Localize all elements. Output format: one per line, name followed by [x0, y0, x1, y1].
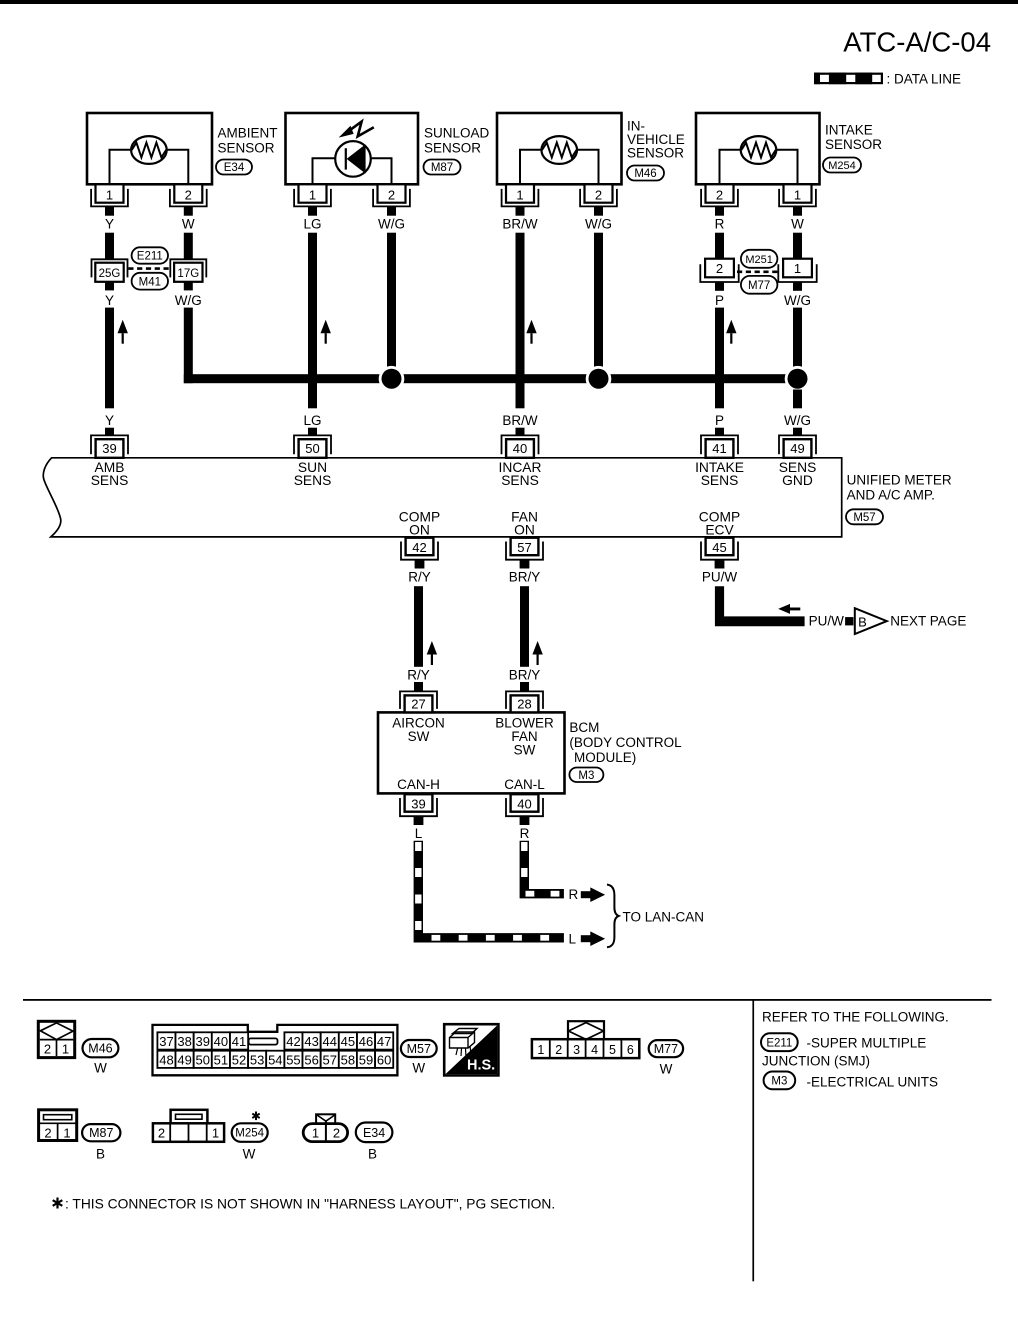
sunload sensor pin 1: [294, 184, 331, 215]
svg-text:: DATA LINE: : DATA LINE: [887, 72, 962, 87]
svg-text:M3: M3: [771, 1076, 787, 1088]
connector ref M46: [627, 166, 664, 181]
ambient sensor pin 2: [170, 184, 207, 215]
data square before B flag: [845, 617, 853, 625]
svg-text:R: R: [715, 217, 725, 232]
connector ref M46 view: [83, 1039, 119, 1075]
svg-text:W/G: W/G: [784, 413, 811, 428]
meter pin 57: [506, 538, 543, 569]
svg-text:CAN-L: CAN-L: [504, 777, 545, 792]
svg-text:49: 49: [790, 441, 804, 456]
svg-text:M46: M46: [634, 168, 656, 180]
direction arrow on BR/W wire: [526, 320, 536, 344]
svg-text:W: W: [660, 1062, 673, 1077]
svg-text:52: 52: [232, 1053, 246, 1068]
svg-text:41: 41: [232, 1034, 246, 1049]
junction dashed line M251/M77: [737, 270, 779, 273]
svg-text:ECV: ECV: [705, 522, 734, 537]
meter pin 50: [294, 435, 331, 457]
svg-text:L: L: [569, 931, 577, 946]
svg-text:M57: M57: [853, 512, 875, 524]
vertical divider line: [752, 1000, 754, 1281]
svg-text:1: 1: [312, 1125, 319, 1140]
svg-text:1: 1: [309, 188, 316, 203]
svg-text:44: 44: [323, 1034, 337, 1049]
ambient sensor E34 body: [87, 113, 212, 184]
svg-text:2: 2: [333, 1125, 340, 1140]
svg-text:55: 55: [286, 1053, 300, 1068]
svg-text:W: W: [412, 1060, 425, 1075]
junction dot sunload W/G: [382, 369, 402, 389]
svg-text:R: R: [520, 826, 530, 841]
svg-text:ATC-A/C-04: ATC-A/C-04: [843, 27, 991, 58]
svg-text:-SUPER MULTIPLE: -SUPER MULTIPLE: [807, 1035, 927, 1050]
meter pin 39: [91, 435, 128, 457]
svg-text:M57: M57: [407, 1042, 431, 1056]
connector ref M87: [424, 160, 461, 175]
svg-text:53: 53: [250, 1053, 264, 1068]
connector ref M87 view: [82, 1124, 120, 1161]
left arrow on PU/W wire: [778, 604, 800, 614]
svg-text:M41: M41: [139, 276, 161, 288]
sunload sensor photodiode symbol: [313, 141, 392, 185]
svg-text:: THIS CONNECTOR IS NOT SHOWN: : THIS CONNECTOR IS NOT SHOWN IN "HARNES…: [65, 1196, 555, 1211]
svg-text:SENSOR: SENSOR: [627, 146, 684, 161]
svg-text:2: 2: [44, 1041, 51, 1056]
terminal 17G (E211/M41 SMJ): [170, 259, 206, 290]
svg-text:2: 2: [716, 188, 723, 203]
svg-text:MODULE): MODULE): [574, 750, 636, 765]
svg-text:E211: E211: [137, 251, 163, 263]
svg-text:41: 41: [712, 441, 726, 456]
intake sensor thermistor symbol: [720, 136, 798, 185]
H.S. view direction mark: [444, 1024, 498, 1075]
svg-text:2: 2: [555, 1043, 562, 1057]
svg-text:1: 1: [106, 188, 113, 203]
BCM pin 39: [400, 794, 437, 825]
svg-text:40: 40: [517, 797, 531, 812]
svg-text:SW: SW: [408, 729, 430, 744]
svg-text:47: 47: [377, 1034, 391, 1049]
connector ref M41: [132, 273, 168, 290]
svg-text:45: 45: [712, 540, 726, 555]
connector ref E34 view: [356, 1123, 393, 1162]
svg-text:39: 39: [411, 797, 425, 812]
svg-text:BCM: BCM: [569, 720, 599, 735]
svg-text:JUNCTION (SMJ): JUNCTION (SMJ): [762, 1053, 870, 1068]
svg-text:37: 37: [159, 1034, 173, 1049]
CAN-H data line wire L to LAN-CAN: [414, 841, 564, 943]
svg-text:SENS: SENS: [701, 473, 739, 488]
svg-text:60: 60: [377, 1053, 391, 1068]
terminal 25G (E211/M41 SMJ): [92, 259, 128, 290]
terminal 1 (M251/M77 junction): [778, 259, 816, 291]
svg-text:BR/W: BR/W: [502, 413, 538, 428]
svg-text:W: W: [94, 1060, 107, 1075]
ambient sensor thermistor symbol: [110, 136, 189, 185]
terminal 2 (M251/M77 junction): [700, 259, 738, 291]
wire stub into meter pin: [105, 428, 114, 436]
svg-text:57: 57: [322, 1053, 336, 1068]
svg-text:51: 51: [214, 1053, 228, 1068]
svg-text:W/G: W/G: [585, 217, 612, 232]
svg-text:43: 43: [304, 1034, 318, 1049]
svg-text:42: 42: [286, 1034, 300, 1049]
svg-text:W: W: [243, 1146, 256, 1161]
svg-text:45: 45: [341, 1034, 355, 1049]
ref M3 electrical units: [764, 1072, 938, 1090]
svg-text:2: 2: [388, 188, 395, 203]
svg-text:6: 6: [627, 1043, 634, 1057]
BCM input names: [392, 715, 554, 792]
svg-text:W/G: W/G: [175, 293, 202, 308]
svg-text:R: R: [569, 887, 579, 902]
svg-text:SENS: SENS: [91, 473, 129, 488]
meter pin 42: [401, 538, 438, 569]
meter output names: [399, 509, 740, 537]
svg-text:5: 5: [609, 1043, 616, 1057]
next page flag B: [855, 608, 887, 634]
connector view M46: [38, 1021, 74, 1057]
curly brace: [607, 885, 619, 948]
svg-text:50: 50: [196, 1053, 210, 1068]
svg-text:E34: E34: [363, 1126, 385, 1140]
connector view M77: [532, 1021, 639, 1058]
svg-text:M254: M254: [235, 1128, 264, 1140]
svg-text:LG: LG: [303, 217, 321, 232]
BCM body M3: [378, 712, 565, 793]
svg-text:AMBIENT: AMBIENT: [218, 126, 278, 141]
svg-text:48: 48: [159, 1053, 173, 1068]
wire Y 25G down to meter pin 39: [105, 308, 114, 409]
label UNIFIED METER AND A/C AMP.: [847, 473, 952, 503]
direction arrow on P wire: [726, 320, 736, 344]
svg-text:M87: M87: [89, 1126, 113, 1140]
svg-text:R/Y: R/Y: [407, 668, 430, 683]
wire P SMJ terminal down to meter pin 41: [715, 308, 724, 409]
svg-text:CAN-H: CAN-H: [397, 777, 440, 792]
svg-text:BR/Y: BR/Y: [509, 570, 541, 585]
svg-text:1: 1: [794, 261, 801, 276]
connector ref M3: [569, 768, 603, 783]
svg-text:-ELECTRICAL UNITS: -ELECTRICAL UNITS: [807, 1074, 939, 1089]
wire BR/Y meter pin57 to BCM pin28: [520, 586, 529, 667]
label INTAKE SENSOR: [825, 123, 882, 153]
connector ref M254 view: [232, 1123, 268, 1161]
svg-text:ON: ON: [409, 522, 430, 537]
svg-text:2: 2: [158, 1125, 165, 1140]
svg-text:B: B: [858, 614, 867, 629]
svg-text:W: W: [791, 217, 804, 232]
svg-text:39: 39: [196, 1034, 210, 1049]
svg-text:Y: Y: [105, 217, 114, 232]
svg-text:57: 57: [517, 540, 531, 555]
connector view M254: [153, 1110, 224, 1142]
sunload sensor M87 body: [286, 113, 419, 184]
svg-text:M77: M77: [654, 1042, 678, 1056]
wire W/G intake terminal down to bus junction: [793, 308, 802, 367]
junction dot intake W/G: [788, 369, 808, 389]
svg-text:4: 4: [591, 1043, 598, 1057]
unified meter and A/C amp M57 body: [43, 458, 841, 537]
sunload sensor light arrows: [339, 122, 374, 138]
arrow R to LAN-CAN: [581, 887, 605, 902]
wire stub into meter pin: [516, 428, 525, 436]
svg-text:1: 1: [62, 1041, 69, 1056]
svg-text:40: 40: [513, 441, 527, 456]
svg-text:B: B: [96, 1146, 105, 1161]
direction arrow on R/Y wire: [427, 641, 437, 665]
junction halo gaps: [379, 366, 811, 392]
connector ref M57 view: [401, 1040, 437, 1075]
svg-text:BR/W: BR/W: [502, 217, 538, 232]
wire PU/W meter pin45 elbow to next page: [715, 586, 805, 626]
CAN-L data line wire R to LAN-CAN: [520, 841, 564, 899]
in-vehicle sensor pin 1: [502, 184, 539, 215]
svg-text:1: 1: [63, 1125, 70, 1140]
meter pin 49: [779, 435, 816, 457]
wire W intake pin1 to SMJ terminal 1: [793, 233, 802, 259]
svg-text:P: P: [715, 413, 724, 428]
svg-text:SENSOR: SENSOR: [424, 141, 481, 156]
svg-text:B: B: [368, 1146, 377, 1161]
SMJ dashed junction line E211/M41: [128, 267, 169, 270]
svg-text:INTAKE: INTAKE: [825, 123, 873, 138]
connector ref M254: [823, 158, 861, 173]
svg-text:2: 2: [185, 188, 192, 203]
sunload sensor pin 2: [373, 184, 410, 215]
svg-text:Y: Y: [105, 293, 114, 308]
footnote asterisk: [53, 1198, 63, 1209]
svg-text:Y: Y: [105, 413, 114, 428]
connector view M57: [153, 1025, 398, 1075]
svg-text:GND: GND: [782, 473, 813, 488]
svg-text:M77: M77: [748, 280, 770, 292]
svg-text:46: 46: [359, 1034, 373, 1049]
svg-text:27: 27: [411, 697, 425, 712]
svg-text:NEXT PAGE: NEXT PAGE: [890, 614, 966, 629]
svg-text:E34: E34: [224, 162, 245, 174]
direction arrow on LG wire: [321, 320, 331, 344]
svg-text:42: 42: [412, 540, 426, 555]
svg-text:SENSOR: SENSOR: [825, 137, 882, 152]
intake sensor M254 body: [696, 113, 820, 184]
connector ref M77 view: [649, 1040, 683, 1076]
wire Y ambient pin1 to 25G: [105, 233, 114, 260]
svg-text:M254: M254: [828, 160, 856, 172]
svg-text:TO LAN-CAN: TO LAN-CAN: [623, 909, 705, 924]
svg-text:W/G: W/G: [784, 293, 811, 308]
svg-text:2: 2: [44, 1125, 51, 1140]
svg-text:PU/W: PU/W: [809, 614, 845, 629]
svg-text:50: 50: [305, 441, 319, 456]
svg-text:SENSOR: SENSOR: [218, 141, 275, 156]
connector view E34: [303, 1114, 347, 1141]
svg-text:40: 40: [214, 1034, 228, 1049]
svg-text:SUNLOAD: SUNLOAD: [424, 126, 490, 141]
svg-text:W: W: [182, 217, 195, 232]
svg-text:REFER TO THE FOLLOWING.: REFER TO THE FOLLOWING.: [762, 1009, 949, 1024]
svg-text:ON: ON: [514, 522, 535, 537]
meter pin 45: [701, 538, 738, 569]
svg-text:H.S.: H.S.: [467, 1058, 495, 1074]
svg-text:58: 58: [341, 1053, 355, 1068]
svg-text:P: P: [715, 293, 724, 308]
in-vehicle sensor M46 body: [497, 113, 622, 184]
wire W/G 17G down to ground bus elbow: [184, 308, 193, 384]
svg-text:M251: M251: [745, 254, 773, 266]
svg-text:54: 54: [268, 1053, 282, 1068]
junction dot in-vehicle W/G: [589, 369, 609, 389]
meter input names: [91, 460, 817, 488]
connector ref E211: [132, 247, 168, 263]
svg-text:56: 56: [304, 1053, 318, 1068]
svg-text:49: 49: [177, 1053, 191, 1068]
BCM pin 28: [506, 682, 543, 712]
connector ref M57: [846, 509, 883, 524]
label AMBIENT SENSOR: [218, 126, 278, 156]
connector ref E34: [216, 160, 252, 175]
svg-text:PU/W: PU/W: [702, 570, 738, 585]
svg-text:1: 1: [537, 1043, 544, 1057]
BCM pin 40: [506, 794, 543, 825]
top border bar: [0, 0, 1018, 4]
svg-text:M87: M87: [431, 162, 453, 174]
svg-text:1: 1: [212, 1125, 219, 1140]
svg-text:R/Y: R/Y: [408, 570, 431, 585]
svg-text:38: 38: [177, 1034, 191, 1049]
wire W/G in-vehicle pin2 down to bus junction: [594, 233, 603, 367]
svg-text:SENS: SENS: [294, 473, 332, 488]
svg-text:28: 28: [517, 697, 531, 712]
svg-text:17G: 17G: [177, 268, 199, 280]
wire R/Y meter pin42 to BCM pin27: [414, 586, 423, 667]
direction arrow on BR/Y wire: [532, 641, 542, 665]
wire W/G junction down to meter pin 49: [793, 390, 802, 409]
svg-text:39: 39: [102, 441, 116, 456]
svg-text:3: 3: [573, 1043, 580, 1057]
wire LG sunload pin1 down to meter pin 50: [308, 233, 317, 409]
label BCM (BODY CONTROL MODULE): [569, 720, 682, 765]
svg-text:M3: M3: [578, 770, 594, 782]
wire stub into meter pin: [793, 428, 802, 436]
svg-text:SW: SW: [514, 743, 536, 758]
svg-text:W/G: W/G: [378, 217, 405, 232]
intake sensor pin 1: [779, 184, 816, 215]
intake sensor pin 2: [701, 184, 738, 215]
meter pin 41: [701, 435, 738, 457]
wire W ambient pin2 to 17G: [184, 233, 193, 260]
svg-text:SENS: SENS: [501, 473, 539, 488]
direction arrow on Y wire: [118, 320, 128, 344]
wire W/G sunload pin2 down to bus junction: [387, 233, 396, 367]
wire BR/W in-vehicle pin1 down to meter pin 40: [516, 233, 525, 409]
data line legend: [814, 72, 961, 87]
in-vehicle sensor thermistor symbol: [520, 136, 599, 185]
svg-text:LG: LG: [303, 413, 321, 428]
wire stub into meter pin: [308, 428, 317, 436]
ref E211 super multiple junction: [761, 1033, 926, 1051]
svg-text:AND A/C AMP.: AND A/C AMP.: [847, 488, 935, 503]
W/G ground bus wire: [184, 374, 802, 383]
label IN-VEHICLE SENSOR: [627, 119, 685, 161]
svg-text:BR/Y: BR/Y: [509, 668, 541, 683]
svg-text:1: 1: [516, 188, 523, 203]
wire R intake pin2 to SMJ terminal 2: [715, 233, 724, 259]
svg-text:L: L: [415, 826, 423, 841]
connector ref M77: [741, 276, 778, 294]
ambient sensor pin 1: [91, 184, 128, 215]
label SUNLOAD SENSOR: [424, 126, 490, 156]
in-vehicle sensor pin 2: [580, 184, 617, 215]
asterisk for M254: [252, 1112, 259, 1121]
svg-text:M46: M46: [88, 1042, 112, 1056]
svg-text:1: 1: [794, 188, 801, 203]
meter pin 40: [502, 435, 539, 457]
arrow L to LAN-CAN: [581, 931, 605, 946]
svg-text:E211: E211: [766, 1037, 792, 1049]
svg-text:2: 2: [716, 261, 723, 276]
svg-text:25G: 25G: [99, 268, 121, 280]
wire stub into meter pin: [715, 428, 724, 436]
connector view M87: [39, 1110, 77, 1141]
BCM pin 27: [400, 682, 437, 712]
svg-text:UNIFIED METER: UNIFIED METER: [847, 473, 952, 488]
separator line: [23, 999, 992, 1001]
svg-text:(BODY CONTROL: (BODY CONTROL: [569, 735, 682, 750]
svg-text:59: 59: [359, 1053, 373, 1068]
svg-text:2: 2: [595, 188, 602, 203]
connector ref M251: [741, 250, 778, 268]
